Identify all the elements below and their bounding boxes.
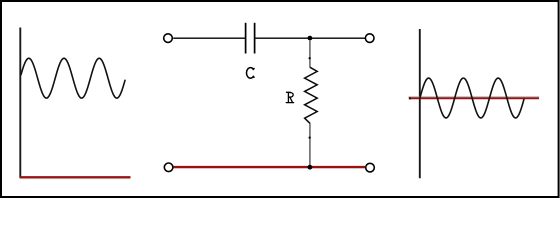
input waveform zero (ground) reference line — [20, 177, 131, 178]
capacitor label C — [246, 68, 254, 79]
node junction bottom (R/return) — [308, 165, 313, 170]
terminal input+ (top-left open circle) — [164, 34, 173, 43]
output waveform zero reference line — [409, 97, 540, 98]
terminal output+ (top-right open circle) — [365, 34, 374, 43]
bottom return wire (input- to output-) — [174, 167, 365, 169]
output waveform vertical axis — [419, 29, 421, 178]
output waveform centered sine — [420, 78, 524, 118]
input waveform vertical axis — [19, 28, 21, 179]
resistor R1 zigzag — [305, 67, 318, 123]
resistor label R — [286, 92, 293, 102]
wire C to output+ — [255, 37, 365, 39]
wire top node to resistor R — [309, 40, 311, 68]
terminal input- (bottom-left open circle) — [164, 163, 173, 172]
input waveform sine with DC offset — [21, 58, 125, 98]
node junction top (C/R/output+) — [308, 36, 313, 41]
wire resistor R to bottom node — [309, 124, 311, 166]
terminal output- (bottom-right open circle) — [366, 163, 375, 172]
capacitor C1 plates — [246, 23, 255, 54]
wire input+ to C — [173, 37, 245, 39]
